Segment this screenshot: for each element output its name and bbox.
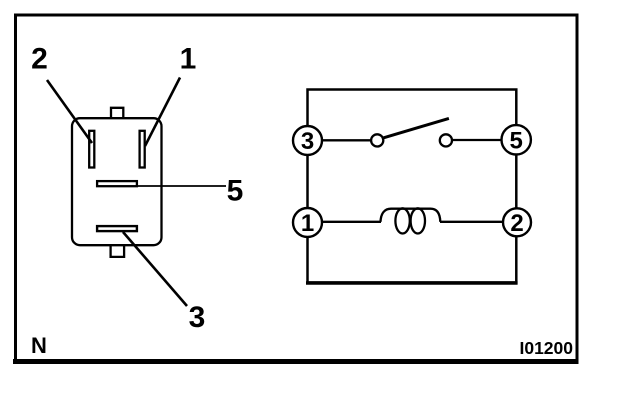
relay bottom tab bbox=[111, 246, 125, 257]
wire coil to node2 bbox=[440, 221, 504, 223]
terminal node 2 bbox=[503, 208, 531, 236]
svg-text:5: 5 bbox=[510, 128, 523, 155]
svg-text:1: 1 bbox=[301, 210, 314, 237]
terminal node 3 bbox=[293, 126, 322, 155]
relay top tab bbox=[111, 108, 123, 119]
schematic outer loop wires bbox=[308, 90, 517, 283]
svg-text:1: 1 bbox=[180, 43, 197, 76]
pin slot 2 (left vertical) bbox=[89, 131, 94, 168]
coil L1 bbox=[381, 209, 441, 222]
wire node1 to coil bbox=[320, 221, 381, 223]
switch blade bbox=[384, 118, 449, 137]
border frame bbox=[16, 15, 578, 361]
wire switch to node5 bbox=[452, 139, 503, 141]
pin slot 5 (middle horizontal) bbox=[97, 181, 137, 186]
svg-text:N: N bbox=[31, 333, 47, 358]
leader line to label 1 bbox=[145, 78, 180, 147]
wire node3 to switch pivot bbox=[320, 139, 371, 141]
leader line to label 2 bbox=[47, 80, 92, 143]
pin slot 3 (lower horizontal) bbox=[97, 226, 137, 231]
svg-text:3: 3 bbox=[189, 301, 206, 334]
switch contact right bbox=[440, 134, 452, 146]
leader line to label 3 bbox=[123, 232, 187, 306]
pin slot 1 (right vertical) bbox=[140, 131, 145, 168]
svg-text:I01200: I01200 bbox=[519, 338, 573, 358]
terminal node 5 bbox=[502, 125, 531, 154]
svg-text:5: 5 bbox=[227, 175, 244, 208]
leader line to label 5 bbox=[138, 185, 226, 187]
switch pivot contact left bbox=[371, 134, 383, 146]
svg-text:2: 2 bbox=[510, 210, 523, 237]
svg-text:3: 3 bbox=[301, 128, 314, 155]
relay body bbox=[72, 118, 162, 245]
svg-text:2: 2 bbox=[31, 43, 48, 76]
terminal node 1 bbox=[293, 208, 322, 237]
